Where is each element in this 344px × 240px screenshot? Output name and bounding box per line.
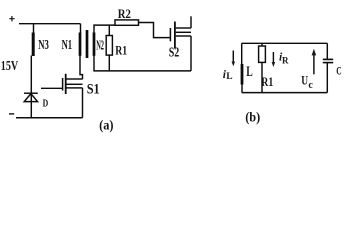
svg-text:L: L (226, 72, 232, 82)
wire bottom rail (b) (242, 92, 328, 94)
wire R1b bottom stub (261, 62, 263, 92)
wire S1 source to bottom rail (82, 88, 84, 118)
voltage arrow Uc (313, 54, 315, 74)
svg-text:C: C (336, 63, 341, 77)
label minus terminal (9, 113, 14, 115)
resistor R1 (a) (106, 36, 112, 56)
svg-text:15V: 15V (1, 59, 18, 74)
wire top rail (a) (19, 23, 81, 25)
arrowhead iR (272, 62, 276, 67)
wire N2 bottom (93, 56, 95, 71)
wire R2 to S2 gate (139, 23, 170, 38)
svg-text:(a): (a) (99, 118, 113, 133)
svg-text:(b): (b) (245, 110, 260, 125)
diode D (24, 93, 38, 101)
inductor L (241, 64, 244, 85)
wire N1 bottom to S1 drain (80, 56, 83, 80)
transformer winding N1 (79, 33, 82, 56)
current arrow iR (272, 52, 274, 63)
svg-text:R2: R2 (118, 6, 131, 21)
resistor R2 (115, 20, 139, 25)
wire S2 source to bottom bus (190, 36, 192, 71)
transformer winding N3 (32, 33, 35, 57)
wire C top (326, 43, 328, 59)
svg-text:R1: R1 (115, 43, 127, 58)
svg-text:L: L (246, 64, 253, 80)
capacitor C (323, 59, 333, 62)
current arrow iL (232, 51, 234, 63)
wire C bottom (326, 63, 328, 93)
wire S1 gate (41, 87, 62, 89)
wire top rail (b) (242, 42, 328, 44)
arrowhead Uc (312, 49, 317, 56)
svg-text:R1: R1 (261, 74, 273, 89)
resistor R1 (b) (259, 46, 266, 62)
wire R1b top stub (261, 43, 263, 46)
transformer winding N2 (93, 33, 96, 56)
wire R1 top stub (108, 25, 110, 35)
transformer core (86, 30, 89, 58)
wire bottom rail (a) (16, 117, 83, 119)
wire N3 branch top (33, 24, 35, 34)
svg-text:D: D (43, 97, 49, 109)
svg-text:S2: S2 (169, 46, 180, 61)
svg-text:c: c (308, 80, 313, 91)
svg-text:U: U (301, 73, 308, 87)
transistor S1 (63, 74, 83, 94)
label plus terminal (9, 16, 14, 21)
wire N1 vertical from top rail (80, 24, 82, 33)
arrowhead iL (232, 62, 236, 67)
svg-text:N2: N2 (96, 38, 104, 53)
wire L bottom (241, 85, 243, 93)
svg-text:S1: S1 (87, 82, 100, 98)
wire bottom bus (a) right (93, 70, 191, 72)
svg-text:N3: N3 (38, 37, 49, 52)
svg-text:R: R (282, 56, 289, 66)
wire N2 top (94, 25, 115, 32)
wire L top (241, 43, 243, 64)
wire R1 bottom stub (108, 55, 110, 71)
wire S2 drain stub up (190, 16, 192, 28)
wire N3 to diode (30, 56, 32, 118)
svg-text:N1: N1 (62, 37, 73, 52)
transistor S2 (170, 22, 191, 49)
